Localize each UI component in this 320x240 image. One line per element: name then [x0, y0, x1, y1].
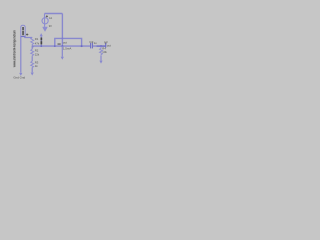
- svg-text:R1: R1: [35, 37, 39, 41]
- bypass wire corner x54.5: [55, 38, 82, 46]
- junction at wire cross x61.5,y38: [62, 38, 64, 40]
- wire: R3 down: [31, 67, 33, 72]
- output terminal bar: [105, 43, 107, 48]
- resistor R2 (zigzag): [31, 49, 34, 56]
- svg-text:10k: 10k: [102, 50, 107, 54]
- microphone M1 (box, rounded top): [21, 25, 25, 36]
- wire: top rail from battery to right vertical: [45, 13, 63, 15]
- wire: main horizontal line: [32, 45, 105, 47]
- wire: arrow stem down to main wire: [40, 36, 42, 46]
- resistor R4 (zigzag, right): [100, 46, 103, 56]
- node junction left (R1/R2/wire): [32, 46, 34, 48]
- background: [0, 0, 120, 82]
- title text (rotated, left margin): [13, 30, 17, 68]
- junction dots on main wire: [54, 45, 56, 47]
- R2 labels: [35, 49, 40, 57]
- battery G1: [42, 14, 48, 27]
- supply arrow node (up arrow at x41.3): [40, 33, 43, 36]
- ground arrow (left divider): [31, 73, 34, 76]
- svg-text:22k: 22k: [35, 53, 40, 57]
- wire: junction down to R2: [31, 46, 33, 49]
- R3 labels: [35, 60, 39, 68]
- plus mark near mic: [26, 33, 28, 35]
- R4 labels: [102, 46, 107, 54]
- ground under battery: [43, 27, 48, 31]
- battery labels: [49, 16, 53, 28]
- wire: right vertical drop x61.5: [61, 14, 63, 47]
- resistor R3 (zigzag): [31, 61, 34, 67]
- node dot x61.5: [61, 45, 63, 47]
- svg-text:G1: G1: [49, 16, 53, 20]
- battery plus sign: [46, 15, 48, 17]
- resistor R1 (zigzag): [31, 38, 34, 47]
- svg-text:www.elektronik-kompendium: www.elektronik-kompendium: [13, 30, 17, 68]
- R1 labels: [35, 37, 40, 45]
- node dot x100.5: [100, 45, 102, 47]
- wire: darker segment near output: [97, 45, 106, 47]
- node dot x81.5: [81, 45, 83, 47]
- svg-text:Gnd Gnd: Gnd Gnd: [13, 75, 25, 79]
- wire: mic left pin down: [20, 37, 22, 73]
- ground arrow middle: [61, 57, 64, 60]
- capacitor C1 plates: [91, 43, 93, 49]
- wire: R4 down: [100, 56, 102, 61]
- svg-text:9V: 9V: [49, 24, 52, 28]
- small label dash above wire left of junction: [58, 44, 61, 45]
- dark label marks on stem: [41, 38, 43, 45]
- mic box bottom bar: [21, 35, 25, 37]
- svg-text:out: out: [107, 44, 111, 48]
- svg-text:47k: 47k: [35, 42, 40, 46]
- svg-text:out: out: [63, 41, 67, 45]
- wire: mic right pin to R1: [25, 36, 32, 39]
- svg-text:1,5mA: 1,5mA: [63, 47, 71, 51]
- ground arrow (mic left pin): [19, 73, 22, 76]
- ground stub middle (x61.5): [61, 46, 63, 57]
- microphone interior marks: [22, 27, 24, 35]
- ground arrow right: [99, 61, 102, 64]
- wire: R2 to R3: [31, 56, 33, 61]
- node dot x41.3: [40, 45, 42, 47]
